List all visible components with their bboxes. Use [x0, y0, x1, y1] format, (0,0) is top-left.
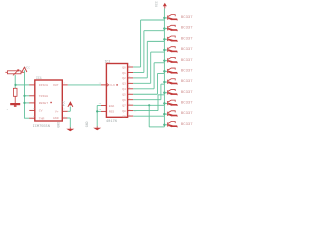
svg-text:ICM7555N: ICM7555N	[33, 125, 50, 129]
svg-text:Q6: Q6	[122, 99, 126, 102]
svg-text:VCC: VCC	[154, 1, 158, 7]
svg-text:CLK: CLK	[110, 84, 116, 87]
svg-text:BC337: BC337	[181, 91, 193, 95]
svg-text:Q4: Q4	[122, 88, 126, 91]
svg-text:BC337: BC337	[181, 59, 193, 63]
svg-text:Q8: Q8	[122, 110, 126, 113]
svg-text:RES: RES	[109, 111, 115, 114]
svg-text:TRIGH: TRIGH	[39, 94, 48, 98]
svg-text:Q5: Q5	[122, 94, 126, 97]
svg-text:4017N: 4017N	[106, 120, 117, 124]
svg-text:Q0: Q0	[122, 66, 126, 69]
svg-text:Q7: Q7	[122, 104, 126, 107]
svg-text:OUT: OUT	[53, 83, 59, 87]
svg-text:RESET: RESET	[39, 101, 48, 105]
svg-text:GND: GND	[56, 122, 60, 128]
svg-text:V+: V+	[55, 110, 59, 114]
svg-text:DISCH: DISCH	[39, 83, 48, 87]
svg-text:IC1: IC1	[36, 76, 42, 80]
svg-text:THR: THR	[39, 117, 45, 121]
svg-text:Q1: Q1	[122, 72, 126, 75]
svg-text:BC337: BC337	[181, 16, 193, 20]
svg-text:VCC: VCC	[61, 101, 65, 107]
svg-text:CO: CO	[122, 115, 126, 118]
svg-text:ENA: ENA	[109, 105, 115, 108]
svg-text:BC337: BC337	[181, 27, 193, 31]
svg-text:GND: GND	[85, 121, 89, 127]
svg-text:BC337: BC337	[181, 37, 193, 41]
svg-text:BC337: BC337	[181, 102, 193, 106]
svg-text:Q2: Q2	[122, 77, 126, 80]
svg-text:BC337: BC337	[181, 123, 193, 127]
svg-text:Q3: Q3	[122, 83, 126, 86]
svg-text:CV: CV	[39, 109, 43, 113]
svg-text:IC2: IC2	[105, 60, 111, 64]
svg-text:BC337: BC337	[181, 112, 193, 116]
svg-text:BC337: BC337	[181, 48, 193, 52]
svg-text:BC337: BC337	[181, 80, 193, 84]
svg-text:GND: GND	[53, 116, 59, 120]
svg-text:BC337: BC337	[181, 69, 193, 73]
svg-text:VCC: VCC	[25, 66, 31, 69]
